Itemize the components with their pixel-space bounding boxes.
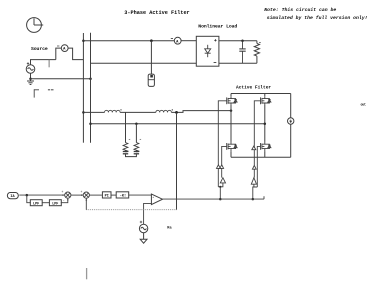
driver buffer A — [217, 165, 221, 169]
summing junction S1 — [65, 192, 71, 198]
bus2 wire — [90, 33, 92, 143]
IA probe box — [7, 193, 18, 200]
V2 bottom lead — [143, 233, 145, 240]
arrow into S2 left — [81, 194, 83, 196]
driver buffer D — [252, 165, 256, 169]
L2 dot — [172, 109, 173, 110]
wire RC bottom — [219, 62, 257, 64]
current source I1 — [288, 118, 294, 124]
bus1 wire — [82, 33, 84, 143]
wire L2 to bridge — [171, 111, 231, 113]
load box minus mark — [214, 62, 217, 64]
junction bus1 top — [82, 39, 85, 42]
wire down to LPF1 — [27, 195, 31, 203]
gate wire Q1 — [218, 101, 226, 165]
node stub — [48, 60, 50, 68]
svg-text:-K!: -K! — [120, 195, 126, 199]
wire load return line — [91, 62, 197, 64]
bridge right rail top — [290, 94, 292, 118]
junction cap top — [241, 39, 244, 42]
junction right leg phase B — [264, 122, 267, 125]
LPF1 box — [30, 200, 42, 207]
wire IA to sum1 — [19, 194, 64, 196]
nonlinear load box — [196, 36, 219, 66]
svg-text:+: + — [81, 190, 83, 194]
inductor L2 — [156, 110, 172, 112]
wire S1 to S2 — [71, 194, 83, 196]
R1 node mark — [259, 42, 261, 44]
driver buffer C — [220, 178, 225, 183]
svg-text:simulated by the full version: simulated by the full version only! — [267, 15, 368, 21]
transistor Q4 — [261, 142, 271, 152]
junction bus2 phase — [89, 122, 92, 125]
AC reference source V2 — [139, 224, 147, 232]
wire L1 to L2 — [120, 111, 156, 113]
svg-text:LPF: LPF — [52, 202, 58, 206]
svg-text:PI: PI — [105, 195, 109, 199]
junction probe — [150, 39, 153, 42]
junction pwm right — [252, 198, 255, 201]
gate wire Q3 — [222, 146, 227, 164]
wire ground line to bus2 — [31, 78, 91, 80]
wire phase line B — [91, 123, 265, 125]
dash mark — [48, 89, 54, 91]
wire phase line A — [83, 111, 104, 113]
junction sense — [175, 111, 178, 114]
wire cluster down — [219, 187, 221, 199]
driver buffer B — [220, 165, 224, 169]
junction bridge leg A — [230, 109, 233, 112]
summing junction S2 — [83, 192, 89, 198]
wire load top line — [83, 40, 174, 42]
PI box — [102, 192, 111, 199]
V2 plus mark — [140, 221, 142, 223]
junction IA split — [26, 194, 29, 197]
LPF2 box — [49, 200, 61, 207]
svg-text:Nonlinear Load: Nonlinear Load — [198, 23, 237, 29]
driver buffer F (Q4 gate) — [252, 146, 256, 150]
arrow into S1 left — [63, 194, 65, 196]
page mark — [86, 268, 88, 279]
feedback wire — [86, 209, 177, 211]
capacitor C1 — [239, 41, 245, 64]
transistor Q2 — [261, 96, 271, 104]
svg-text:out: out — [361, 102, 367, 106]
gain box K — [116, 192, 129, 199]
junction driver join — [219, 186, 221, 188]
junction pwm left — [219, 198, 222, 201]
ground — [27, 79, 34, 85]
driver buffer E — [251, 178, 256, 185]
bridge bottom rail — [231, 156, 291, 158]
damper bottom U wire — [126, 154, 137, 156]
wire to ammeter A1 — [56, 48, 62, 60]
wire V1 top lead — [31, 60, 56, 65]
wire PI to K — [111, 194, 116, 196]
junction V1-ground — [29, 77, 32, 80]
wire driver E to pwm — [253, 184, 254, 187]
svg-text:Source: Source — [31, 46, 48, 52]
wire buffer B down — [221, 168, 223, 177]
wire buffer D down — [253, 169, 255, 177]
feedback arrowhead — [85, 199, 87, 201]
comparator U1 — [151, 194, 162, 205]
bridge right rail bottom — [290, 124, 292, 157]
bridge top rail — [231, 93, 291, 95]
gate wire Q4 — [257, 146, 260, 187]
svg-text:3-Phase Active Filter: 3-Phase Active Filter — [124, 10, 189, 16]
svg-text:+: + — [62, 190, 64, 194]
svg-text:+: + — [152, 196, 154, 199]
bridge left leg — [230, 94, 232, 158]
wire A1 to bus1 — [68, 48, 83, 60]
damper node tick B — [140, 138, 141, 140]
wire gate D join — [253, 187, 257, 199]
inductor L1 — [105, 110, 121, 112]
probe P1 body — [148, 74, 154, 86]
bridge right leg — [264, 94, 266, 158]
wire driver C to pwm — [218, 183, 223, 187]
AC source V1 — [26, 65, 35, 74]
ammeter A2 — [174, 37, 181, 44]
A1 plus mark — [57, 45, 59, 47]
V1 plus mark — [27, 62, 29, 64]
resistor R1 — [254, 41, 259, 64]
probe P1 lead — [150, 41, 152, 74]
transistor Q3 — [227, 142, 237, 152]
wire LPF1 to LPF2 — [42, 202, 50, 204]
resistor R2 — [123, 143, 128, 152]
svg-text:-: - — [63, 199, 65, 203]
damper node tick A — [129, 138, 130, 140]
svg-text:Note: This circuit can be: Note: This circuit can be — [264, 7, 336, 13]
pwm output wire — [163, 198, 265, 200]
svg-text:LPF: LPF — [33, 202, 39, 206]
capacitor C2 — [123, 150, 128, 154]
wire buffer A down — [217, 168, 219, 186]
damper branch B lead — [135, 124, 137, 143]
load box plus mark — [214, 39, 216, 41]
resistor R3 — [134, 143, 139, 152]
junction ground-bus2 — [89, 77, 92, 80]
wire V1 bottom lead — [30, 73, 32, 78]
junction bus1 phase — [82, 111, 85, 114]
wire A2 to load box — [181, 40, 196, 42]
capacitor C3 — [134, 150, 139, 154]
wire RC top — [219, 40, 257, 42]
clock icon — [27, 18, 44, 33]
arrow into S1 bottom — [67, 198, 69, 200]
damper branch A lead — [125, 112, 127, 142]
wire LPF2 to sum1 — [61, 198, 68, 202]
feedback wire up to S2 — [85, 198, 87, 210]
wire ref to comparator — [144, 203, 152, 224]
svg-text:Active Filter: Active Filter — [236, 84, 271, 90]
pwm end tick — [263, 196, 265, 199]
wire K to comparator — [129, 194, 152, 196]
svg-text:Ra: Ra — [167, 227, 172, 231]
ground triangle — [140, 239, 147, 243]
gate wire Q2 — [254, 101, 260, 165]
ammeter A1 — [61, 45, 68, 52]
junction branch B — [135, 122, 138, 125]
corner mark — [34, 89, 39, 97]
L1 dot — [120, 109, 121, 110]
A2 arrow mark — [171, 37, 173, 39]
transistor Q1 — [227, 96, 237, 104]
sense wire vertical — [176, 112, 178, 209]
diode D1 inside load — [205, 45, 211, 57]
wire S2 to PI — [89, 194, 102, 196]
